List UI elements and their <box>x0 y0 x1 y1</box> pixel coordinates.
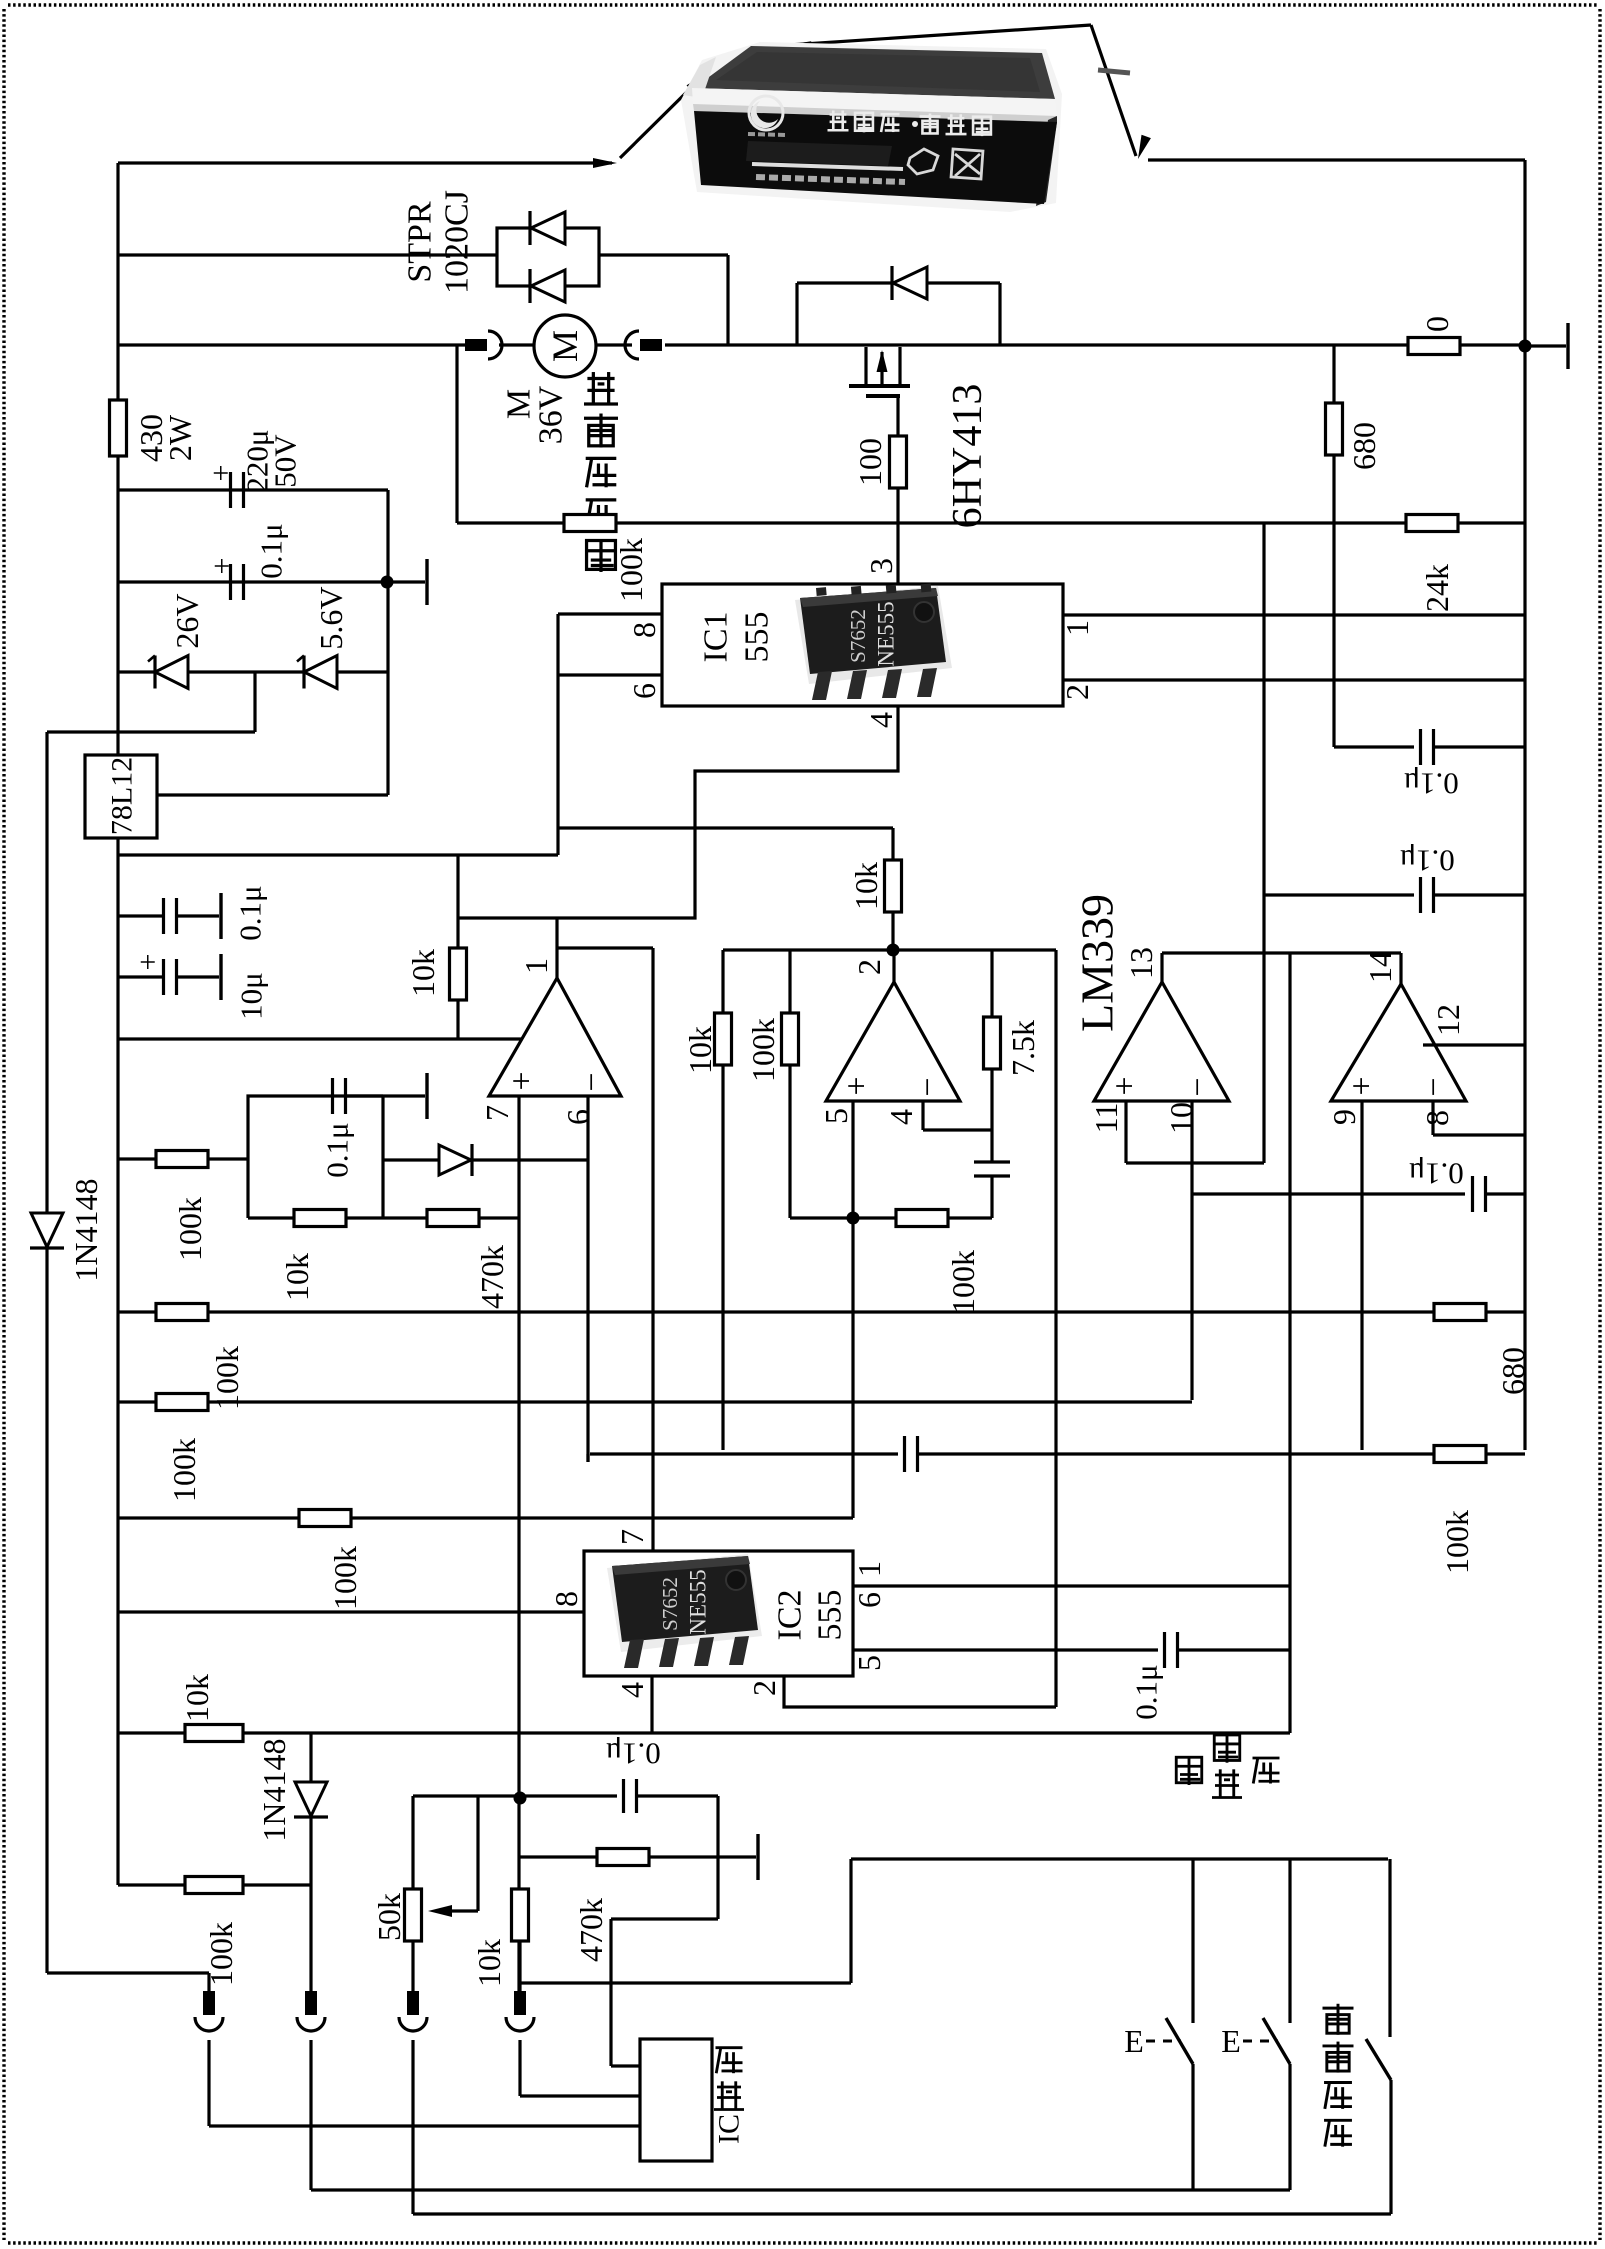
motor M circle <box>534 315 596 377</box>
wire motor rail right <box>665 343 1525 346</box>
svg-text:+: + <box>132 954 165 971</box>
svg-text:0.1μ: 0.1μ <box>1399 844 1454 879</box>
svg-text:0.1μ: 0.1μ <box>233 885 268 940</box>
svg-text:10k: 10k <box>179 1674 215 1722</box>
wire bridge output down to motor rail <box>726 255 729 345</box>
wire U2 pin4 to 7.5k <box>921 1101 924 1130</box>
wire gate lead to IC1 pin3 <box>896 487 899 584</box>
wire IC1 pin8 <box>558 612 662 615</box>
resistor 100k hall row <box>185 1877 243 1894</box>
label hall IC chinese <box>716 2048 743 2074</box>
svg-text:12: 12 <box>1430 1004 1466 1036</box>
wire 0.1u row C (pin10 node) <box>1192 1192 1465 1195</box>
page dotted border frame <box>8 3 1598 6</box>
node U2 output junction <box>887 944 900 957</box>
svg-text:+: + <box>1344 1076 1381 1095</box>
op-amp U4 (LM339 out pin14) <box>1331 984 1466 1101</box>
node junction <box>381 576 394 589</box>
wire 78L12 ground side <box>157 793 388 796</box>
wire filter node vertical <box>386 490 389 795</box>
svg-text:6: 6 <box>851 1592 887 1608</box>
resistor 10k above comparator U1 <box>456 855 459 948</box>
ground bar feedback <box>345 1094 425 1097</box>
svg-text:11: 11 <box>1088 1103 1124 1134</box>
svg-text:4: 4 <box>863 712 899 728</box>
potentiometer 50k <box>405 1889 422 1941</box>
wire pot top leg <box>411 1796 414 1889</box>
wire left-bus link <box>47 730 255 733</box>
svg-text:IC1: IC1 <box>698 612 735 663</box>
svg-text:E: E <box>1124 2023 1144 2059</box>
wire to switch feed <box>849 1859 852 1983</box>
wire 680 leg down to 0.1u row <box>1332 455 1335 747</box>
switch speed-limit cruise <box>1388 1859 1391 2037</box>
wire hall stub A <box>611 2064 640 2067</box>
svg-text:2: 2 <box>1059 684 1095 700</box>
battery logo crescent <box>749 96 783 130</box>
op-amp IC2 555 box <box>584 1551 853 1676</box>
diode freewheel (points left) <box>893 267 927 299</box>
battery small print row <box>756 177 905 182</box>
regulator 78L12 box <box>85 755 157 838</box>
wire row3 to pin10 <box>118 1400 1192 1403</box>
svg-text:9: 9 <box>1326 1109 1362 1125</box>
svg-text:36V: 36V <box>533 385 570 444</box>
wire U1 output to IC1 pin4 net <box>555 918 558 978</box>
ground bar <box>650 1855 756 1858</box>
svg-text:4: 4 <box>614 1682 650 1698</box>
wire U1 pin6 vertical <box>586 1096 589 1462</box>
svg-text:680: 680 <box>1495 1347 1531 1395</box>
svg-text:470k: 470k <box>573 1898 609 1962</box>
wire leader diagonal to battery photo <box>620 74 705 158</box>
svg-text:100k: 100k <box>172 1197 208 1261</box>
wire U1 output branch to IC2 pin7 line <box>557 946 653 949</box>
pot wiper arrow <box>448 1909 478 1912</box>
svg-text:LM339: LM339 <box>1072 894 1123 1032</box>
svg-text:6: 6 <box>560 1109 596 1125</box>
wire freewheel diode loop <box>797 281 1000 284</box>
svg-text:+: + <box>504 1071 541 1090</box>
wire comparator row to 680 <box>118 1310 1436 1313</box>
wire feedback diode row <box>383 1158 588 1161</box>
svg-text:50V: 50V <box>268 434 303 488</box>
wire long vertical to IC2 pin7 <box>651 948 654 1551</box>
svg-text:470k: 470k <box>474 1245 510 1309</box>
resistor 100k row4 <box>1434 1446 1486 1463</box>
node junction rail/ground bus <box>1519 340 1532 353</box>
svg-text:26V: 26V <box>169 593 205 648</box>
resistor 100 (gate) <box>890 436 907 488</box>
svg-text:2W: 2W <box>162 414 198 461</box>
svg-text:E: E <box>1221 2023 1241 2059</box>
svg-text:78L12: 78L12 <box>106 757 139 835</box>
resistor 10k reset row <box>185 1725 243 1742</box>
wire 0.1u row B <box>1264 893 1414 896</box>
wire gate lead <box>896 397 899 437</box>
wire U2 pin5 vertical <box>851 1101 854 1218</box>
svg-text:−: − <box>1180 1077 1217 1096</box>
wire 0.1u row A (from 680 leg) <box>1334 745 1414 748</box>
resistor 24k <box>1406 515 1458 532</box>
dual diode STPR1020CJ box <box>497 228 599 286</box>
svg-text:10k: 10k <box>405 949 441 997</box>
resistor 100k (gate node) <box>564 515 616 532</box>
wire IC2 pin5 row with 0.1u <box>853 1648 1158 1651</box>
svg-text:5.6V: 5.6V <box>313 586 349 649</box>
label right switch chinese <box>1253 1758 1280 1784</box>
wire U3 pin10 vertical <box>1190 1101 1193 1400</box>
svg-text:M: M <box>545 330 585 362</box>
wire feedback mid vertical <box>381 1096 384 1218</box>
resistor 7.5k on -input <box>990 950 993 1017</box>
wire feedback cap row <box>248 1096 383 1159</box>
resistor 470k feedback <box>427 1210 479 1227</box>
capacitor osc <box>990 1130 993 1162</box>
wire outputs down to brake switch <box>1288 953 1291 1733</box>
svg-text:5: 5 <box>818 1108 854 1124</box>
wire IC2 pin4 stub <box>650 1676 653 1733</box>
svg-text:2: 2 <box>851 959 887 975</box>
op-amp U3 (LM339 out pin13) <box>1094 982 1229 1101</box>
label brake chinese <box>1214 1735 1240 1763</box>
zener diode 5.6V <box>304 656 337 689</box>
svg-text:6: 6 <box>626 683 662 699</box>
switch left-brake <box>1191 1859 1194 2023</box>
op-amp U1 (LM339 out pin1) <box>489 978 621 1096</box>
svg-text:24k: 24k <box>1419 564 1455 612</box>
wire U2 lower row <box>790 1216 992 1219</box>
wire pin6 branch corner <box>586 1454 589 1462</box>
wire pin5 chain down to 100k row <box>851 1218 854 1518</box>
svg-text:1: 1 <box>851 1561 887 1577</box>
capacitor 220u 50V row <box>118 488 388 491</box>
wire U4 pin8 <box>1431 1101 1434 1135</box>
hall IC box <box>640 2039 712 2161</box>
svg-text:10μ: 10μ <box>234 972 269 1020</box>
wire U3 pin11 <box>1124 1101 1127 1163</box>
wire IC2 pin1-6 row <box>853 1584 1290 1587</box>
resistor 100k to +input <box>788 950 791 1013</box>
node throttle junction <box>514 1792 527 1805</box>
wire 100k hall row <box>118 1883 311 1886</box>
resistor 10k on U2 + branch <box>721 950 724 1013</box>
wire switch feed row <box>851 1857 1388 1860</box>
svg-text:0.1μ: 0.1μ <box>1129 1664 1164 1719</box>
svg-text:+: + <box>1107 1076 1144 1095</box>
capacitor 0.1u decoupling row <box>118 914 163 917</box>
wire IC1 pin6 <box>558 673 662 676</box>
diode feedback (points right) <box>439 1145 471 1175</box>
wire hall stub C <box>209 2124 640 2127</box>
svg-text:−: − <box>1416 1077 1453 1096</box>
wire U4 pin12 to ground bus <box>1423 1043 1525 1046</box>
svg-text:100: 100 <box>852 438 888 486</box>
wire 680 leg from rail <box>1332 346 1335 403</box>
zener diode 26V <box>155 656 188 689</box>
resistor 0 (current sense) on rail <box>1408 338 1460 355</box>
svg-text:555: 555 <box>739 612 776 663</box>
wire row4 with 0.1u and 100k to bus <box>590 1452 898 1455</box>
svg-text:100k: 100k <box>1439 1510 1475 1574</box>
svg-text:8: 8 <box>1419 1110 1455 1126</box>
wire 470k to ground row <box>520 1855 596 1858</box>
label left switch chinese <box>1176 1757 1202 1785</box>
op-amp U2 (LM339 out pin2) <box>826 982 960 1101</box>
wire cruise return row <box>413 2212 1391 2215</box>
wire 24k-node vertical <box>1262 523 1265 1163</box>
resistor 100k row2 <box>156 1304 208 1321</box>
resistor 430 2W on bus <box>110 400 127 456</box>
svg-text:7.5k: 7.5k <box>1005 1020 1041 1076</box>
wire IC1 pins8-6 to 10k drive <box>558 826 893 829</box>
wire IC2 pin2 path <box>784 1676 1056 1707</box>
wire +36V top bus (portrait px118 vertical) <box>116 163 119 1885</box>
resistor 100k <box>156 1151 208 1168</box>
svg-text:1N4148: 1N4148 <box>256 1738 292 1841</box>
svg-text:5: 5 <box>851 1655 887 1671</box>
svg-text:8: 8 <box>548 1591 584 1607</box>
connector J4 (10k) <box>518 1940 521 1992</box>
svg-text:4: 4 <box>883 1109 919 1125</box>
resistor 10k feedback <box>294 1210 346 1227</box>
svg-text:100k: 100k <box>327 1546 363 1610</box>
battery negative terminal bar <box>1525 344 1566 347</box>
svg-text:7: 7 <box>614 1529 650 1545</box>
wire U2-output long vertical <box>1054 950 1057 1707</box>
wire U3/U4 output row <box>1160 953 1163 982</box>
svg-text:50k: 50k <box>371 1893 407 1941</box>
svg-text:+: + <box>205 465 238 482</box>
wire top leader horizontal <box>118 161 612 164</box>
connector plug right of motor <box>640 339 662 351</box>
IC photo NE555 inside IC1 <box>795 584 952 700</box>
connector J1 (left bus) <box>47 1971 209 1974</box>
wire top-right horizontal to ground bus <box>1148 158 1525 161</box>
svg-text:0: 0 <box>1419 316 1455 332</box>
wire motor rail left <box>118 343 465 346</box>
diode 1N4148 on left bus (points down) <box>31 1213 63 1247</box>
svg-text:+: + <box>839 1076 876 1095</box>
svg-text:100k: 100k <box>613 538 649 602</box>
svg-text:13: 13 <box>1123 947 1159 979</box>
resistor 100k row5 <box>299 1510 351 1527</box>
svg-text:IC: IC <box>713 2114 746 2144</box>
ground bar for filter <box>387 580 425 583</box>
wire hall supply row <box>520 1981 851 1984</box>
svg-text:2: 2 <box>746 1680 782 1696</box>
svg-text:1020CJ: 1020CJ <box>439 190 476 294</box>
svg-text:8: 8 <box>626 622 662 638</box>
wire IC1 pin1 to ground bus <box>1063 613 1525 616</box>
capacitor 0.1u feedback <box>331 1078 334 1114</box>
wire 100k row from bus <box>118 1157 248 1160</box>
wire IC1 pin2 to ground bus <box>1063 678 1525 681</box>
wire IC2 pin8 to bus <box>118 1610 584 1613</box>
wire bridge-diode row <box>118 253 497 256</box>
svg-text:NE555: NE555 <box>686 1569 711 1634</box>
svg-text:0.1μ: 0.1μ <box>605 1737 660 1772</box>
resistor 10k to U2 output node <box>891 828 894 860</box>
svg-text:3: 3 <box>863 558 899 574</box>
resistor 680 to ground bus <box>1434 1304 1486 1321</box>
op-amp IC1 555 box <box>662 584 1063 706</box>
diode D1 of STPR1020CJ (upper) <box>531 212 565 244</box>
svg-text:100k: 100k <box>745 1018 781 1082</box>
wire hall stub B <box>520 2094 640 2097</box>
svg-text:0.1μ: 0.1μ <box>1408 1157 1463 1192</box>
svg-text:100k: 100k <box>945 1250 981 1314</box>
svg-text:+: + <box>206 558 239 575</box>
svg-text:555: 555 <box>812 1590 849 1641</box>
wire ground bus (portrait px1525 vertical) <box>1523 160 1526 1450</box>
svg-text:STPR: STPR <box>402 201 439 283</box>
wire leader from battery right <box>789 25 1091 45</box>
capacitor 0.1u row <box>118 580 381 583</box>
label speed limit cruise chinese <box>1323 2004 1354 2035</box>
wire brake return row <box>311 2188 1290 2191</box>
svg-text:7: 7 <box>479 1105 515 1121</box>
svg-text:10k: 10k <box>848 862 884 910</box>
svg-text:S7652: S7652 <box>658 1577 682 1631</box>
svg-text:1: 1 <box>1059 620 1095 636</box>
transistor Q1 MOSFET 6HY413 <box>864 347 867 384</box>
svg-text:14: 14 <box>1362 951 1398 983</box>
wire U4 pin9 vertical <box>1360 1101 1363 1450</box>
svg-text:−: − <box>910 1077 947 1096</box>
switch right-brake <box>1288 1859 1291 2023</box>
svg-text:10k: 10k <box>682 1026 718 1074</box>
wire reset row <box>118 1731 1290 1734</box>
label motor chinese <box>584 372 618 404</box>
svg-text:6HY413: 6HY413 <box>945 384 991 529</box>
svg-text:0.1μ: 0.1μ <box>320 1122 355 1177</box>
resistor 100k lower <box>896 1210 948 1227</box>
wire feedback lower row <box>248 1216 519 1219</box>
wire U2 output row <box>723 948 1056 951</box>
svg-text:−: − <box>574 1072 611 1091</box>
svg-text:10k: 10k <box>279 1253 315 1301</box>
wire throttle node row with 0.1u <box>413 1794 617 1797</box>
wire row5 (U2 pin5 reference) <box>118 1516 853 1519</box>
connector plug left of motor <box>465 339 487 351</box>
svg-text:0.1μ: 0.1μ <box>1403 767 1458 802</box>
wire IC1 pins 8-6 junction vertical <box>556 614 559 855</box>
battery recycle icons <box>908 149 983 179</box>
wire hall-C down link <box>716 1796 719 1919</box>
svg-text:10k: 10k <box>471 1939 507 1987</box>
svg-text:S7652: S7652 <box>846 609 870 663</box>
diode 1N4148 to hall row <box>309 1733 312 1790</box>
wire +input row <box>118 1037 524 1040</box>
capacitor 10u decoupling row <box>118 975 163 978</box>
svg-text:IC2: IC2 <box>772 1590 809 1641</box>
resistor 680 <box>1326 403 1343 455</box>
wire zener row <box>118 670 388 673</box>
svg-text:680: 680 <box>1346 422 1382 470</box>
IC photo NE555 inside IC2 <box>607 1554 762 1668</box>
battery slogan text white <box>828 111 991 137</box>
node arrow to battery photo left <box>593 158 617 168</box>
wire 12V row to comparator network <box>118 853 558 856</box>
resistor 470k <box>597 1849 649 1866</box>
battery display window <box>746 141 892 166</box>
wire U1 pin7 long vertical (throttle line) <box>517 1096 520 2002</box>
wire IC1 pin4 path <box>458 706 898 918</box>
connector J3 (pot) <box>411 1940 414 1992</box>
battery pack photo <box>681 42 1130 212</box>
svg-text:1N4148: 1N4148 <box>68 1178 104 1281</box>
svg-text:NE555: NE555 <box>874 601 899 666</box>
wire far-left bus <box>45 732 48 1973</box>
svg-text:0.1μ: 0.1μ <box>254 523 289 578</box>
connector J2 <box>305 1991 317 2015</box>
diode D2 of STPR1020CJ (lower) <box>531 270 565 302</box>
svg-text:1: 1 <box>518 958 554 974</box>
wire leader diagonal right <box>1091 25 1136 156</box>
resistor 10k throttle <box>512 1889 529 1941</box>
svg-text:100k: 100k <box>166 1438 202 1502</box>
wire PWM node row (100k/24k to ground bus) <box>455 345 458 523</box>
node pin5 junction <box>847 1212 860 1225</box>
resistor 100k row3 <box>156 1394 208 1411</box>
